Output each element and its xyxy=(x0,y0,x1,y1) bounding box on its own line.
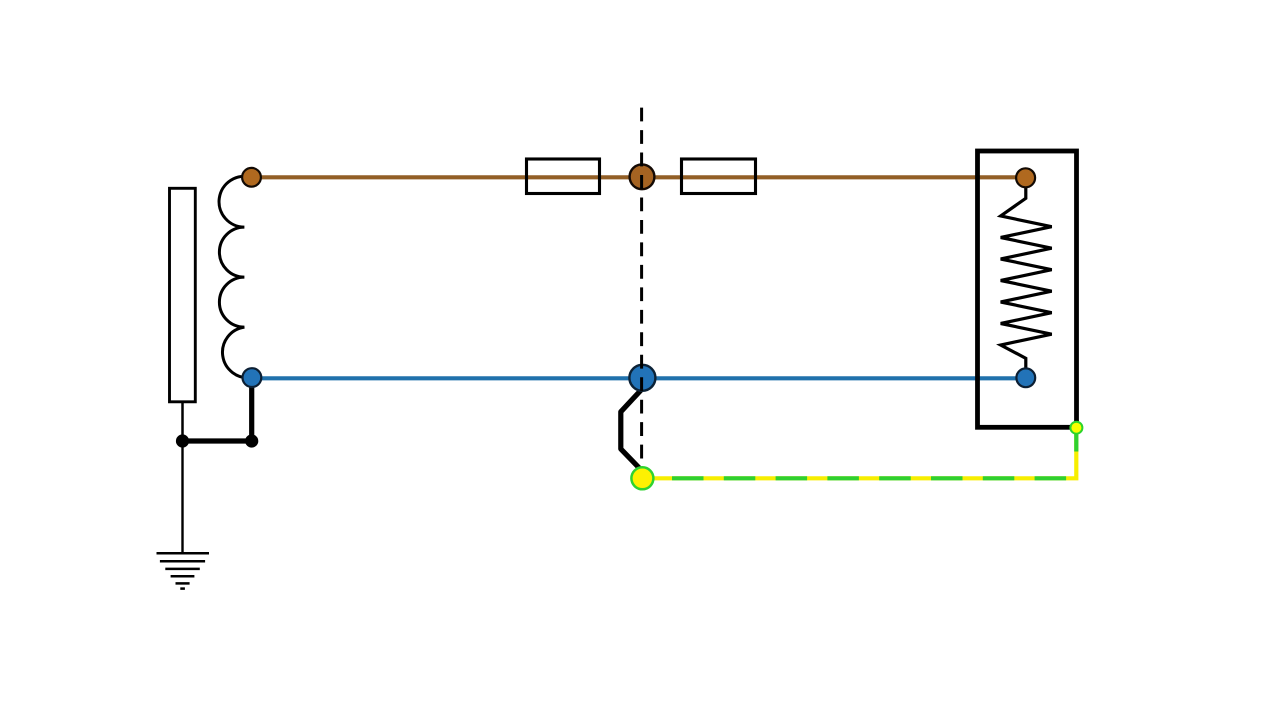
wire brown phase L xyxy=(252,175,1027,179)
inductor coil winding L1 xyxy=(219,176,251,377)
earth wire green dashes horizontal xyxy=(672,476,1076,480)
ground symbol xyxy=(157,553,210,588)
node brown left xyxy=(242,168,261,187)
wire transformer bottom lead xyxy=(181,402,184,441)
resistor heating element R1 xyxy=(1001,186,1052,370)
earth wire yellow xyxy=(643,432,1077,478)
node brown right xyxy=(1016,168,1035,187)
wire ground stem xyxy=(181,441,183,553)
junction dot left xyxy=(176,434,189,447)
node blue right xyxy=(1016,368,1035,387)
fuse F2 xyxy=(682,159,756,194)
fuse F1 xyxy=(527,159,600,194)
wire blue neutral N xyxy=(252,376,1026,380)
earth wire green dash vertical xyxy=(1074,434,1078,452)
node blue mid xyxy=(629,365,655,391)
earth node yellow xyxy=(631,467,653,489)
transformer core rectangle T1 xyxy=(170,188,196,401)
load enclosure box xyxy=(978,151,1077,427)
wire neutral to earth link xyxy=(183,381,252,441)
node blue left xyxy=(243,368,262,387)
node brown mid xyxy=(630,164,655,189)
junction dot right xyxy=(245,434,258,447)
boundary dashed line xyxy=(640,108,643,459)
switch blade wire xyxy=(621,389,643,470)
corner green node xyxy=(1070,422,1082,434)
